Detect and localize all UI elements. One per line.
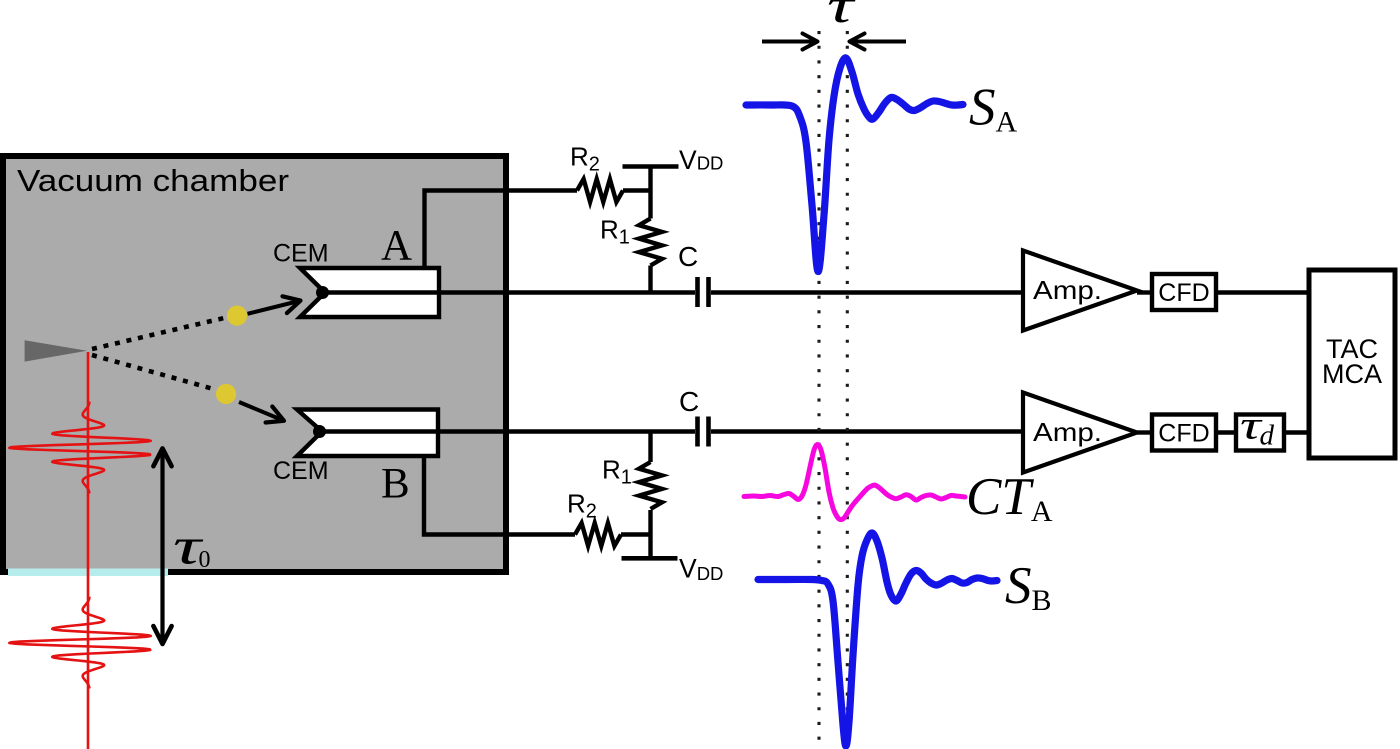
svg-text:R2: R2 xyxy=(570,142,600,176)
electron trajectory to CEM A (dotted) xyxy=(92,318,224,349)
emitter tip xyxy=(25,340,87,361)
op-amp Amp (channel B) xyxy=(1023,393,1137,473)
wire CFD A to TAC xyxy=(1216,290,1309,294)
svg-text:R1: R1 xyxy=(600,215,630,249)
svg-text:R2: R2 xyxy=(567,489,597,523)
svg-text:CFD: CFD xyxy=(1158,420,1209,448)
CEM detector B body xyxy=(297,410,438,457)
electron (yellow) on path B xyxy=(216,384,236,404)
resistor R2 (channel B) xyxy=(575,523,621,546)
wire Amp B to CFD B xyxy=(1137,430,1152,434)
svg-text:CEM: CEM xyxy=(273,457,329,485)
label tau_d xyxy=(1240,403,1275,451)
svg-text:CFD: CFD xyxy=(1158,279,1209,307)
laser pulse packet 2 xyxy=(9,597,150,689)
VDD rail bar (B) xyxy=(622,556,678,561)
laser pulse packet 1 xyxy=(9,402,150,494)
TAC/MCA box xyxy=(1309,270,1395,458)
CEM A anode dot xyxy=(316,286,329,299)
tau left arrow xyxy=(762,34,818,50)
CEM detector A body xyxy=(300,268,439,317)
svg-text:C: C xyxy=(678,241,698,272)
svg-text:τ: τ xyxy=(827,0,856,33)
svg-text:B: B xyxy=(381,461,410,508)
waveform S_B (blue) xyxy=(758,533,997,746)
svg-text:SB: SB xyxy=(1005,557,1052,617)
arrow into CEM B xyxy=(239,402,284,423)
capacitor C (B) xyxy=(698,417,709,447)
VDD rail bar (A) xyxy=(623,164,679,169)
svg-text:0: 0 xyxy=(199,547,211,573)
wire R2 to node (B) xyxy=(621,532,651,536)
CFD box (channel A) xyxy=(1152,274,1216,310)
wire CEM B bottom to bias xyxy=(424,456,575,535)
signal wire A: CEM to capacitor xyxy=(320,290,695,294)
svg-text:CTA: CTA xyxy=(966,468,1053,528)
electron trajectory to CEM B (dotted) xyxy=(92,355,217,390)
wire CFD B to delay xyxy=(1216,430,1236,434)
electron (yellow) on path A xyxy=(227,306,247,326)
svg-text:MCA: MCA xyxy=(1322,359,1382,389)
tau right arrow xyxy=(850,34,907,50)
tau0 interval double-headed arrow xyxy=(153,448,171,644)
svg-text:SA: SA xyxy=(969,79,1018,139)
svg-text:CEM: CEM xyxy=(273,240,329,268)
svg-text:R1: R1 xyxy=(602,455,632,489)
waveform CT_A (magenta) xyxy=(744,445,965,520)
svg-text:VDD: VDD xyxy=(679,554,723,585)
op-amp Amp (channel A) xyxy=(1023,251,1137,331)
wire CEM A top to bias xyxy=(425,191,578,269)
label tau0 xyxy=(173,518,211,575)
resistor R1 (channel A) xyxy=(639,219,662,266)
svg-text:Vacuum chamber: Vacuum chamber xyxy=(17,163,289,198)
delay box tau_d xyxy=(1236,415,1284,451)
waveform S_A (blue) xyxy=(746,58,963,272)
wire R1 to signal node (B) xyxy=(648,430,652,463)
timing marker line 1 (dotted) xyxy=(817,31,820,749)
signal wire A: capacitor to Amp xyxy=(711,290,1023,294)
wire: red laser beam axis xyxy=(87,352,90,749)
arrow into CEM A xyxy=(248,296,301,314)
wire Amp A to CFD A xyxy=(1137,290,1152,294)
svg-text:d: d xyxy=(1260,420,1275,452)
wire VDD to R1 node (B) xyxy=(648,510,652,558)
signal wire B: capacitor to Amp xyxy=(711,429,1023,433)
CFD box (channel B) xyxy=(1152,415,1216,451)
svg-text:A: A xyxy=(381,223,412,270)
wire VDD to R1 node (A) xyxy=(648,167,652,219)
signal wire B: CEM to capacitor xyxy=(314,429,695,433)
wire R2 to node (A) xyxy=(623,188,651,192)
vacuum chamber box xyxy=(3,156,506,572)
wire delay to TAC xyxy=(1284,430,1309,434)
wire R1 to signal node (A) xyxy=(648,266,652,295)
svg-text:Amp.: Amp. xyxy=(1033,275,1102,305)
svg-text:C: C xyxy=(679,386,699,417)
resistor R2 (channel A) xyxy=(577,179,623,202)
capacitor C (A) xyxy=(698,277,709,307)
svg-text:VDD: VDD xyxy=(679,145,723,175)
CEM B anode dot xyxy=(313,425,326,438)
window (cyan) in chamber bottom wall xyxy=(8,569,168,577)
svg-text:Amp.: Amp. xyxy=(1033,417,1102,447)
timing marker line 2 (dotted) xyxy=(846,31,849,749)
resistor R1 (channel B) xyxy=(639,462,662,509)
